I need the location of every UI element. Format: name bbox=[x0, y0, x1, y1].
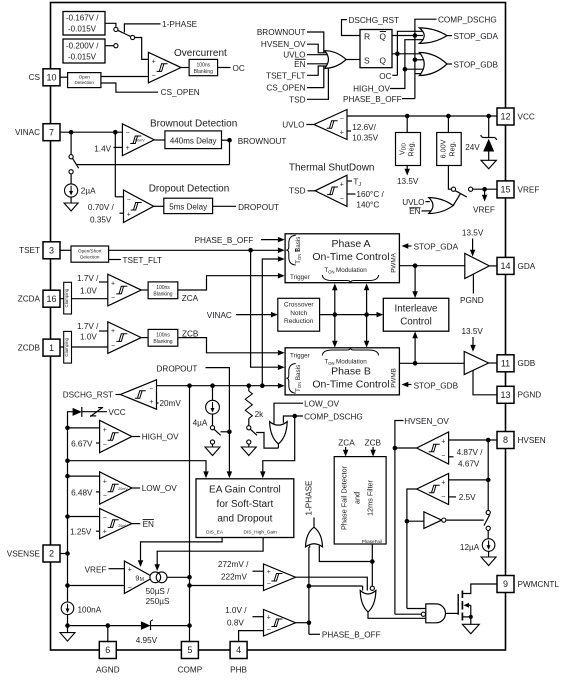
svg-text:−: − bbox=[103, 493, 107, 500]
svg-text:TSD: TSD bbox=[289, 95, 305, 104]
svg-text:VINAC: VINAC bbox=[207, 311, 232, 320]
svg-text:1-PHASE: 1-PHASE bbox=[305, 480, 314, 516]
svg-text:HVSEN: HVSEN bbox=[518, 436, 546, 445]
svg-text:DROPOUT: DROPOUT bbox=[238, 203, 279, 212]
svg-text:OC: OC bbox=[379, 72, 391, 81]
svg-text:Q: Q bbox=[379, 31, 386, 41]
svg-text:Trigger: Trigger bbox=[290, 352, 310, 359]
svg-text:TSD: TSD bbox=[289, 187, 305, 196]
svg-text:ZCDB: ZCDB bbox=[18, 344, 41, 353]
svg-text:13.5V: 13.5V bbox=[397, 177, 419, 186]
svg-text:Control: Control bbox=[400, 317, 432, 328]
svg-text:1.25V: 1.25V bbox=[70, 528, 92, 537]
svg-text:Phase A: Phase A bbox=[331, 238, 370, 250]
svg-text:Clamping: Clamping bbox=[64, 337, 69, 356]
svg-text:−: − bbox=[149, 385, 153, 392]
svg-text:PHASE_B_OFF: PHASE_B_OFF bbox=[322, 631, 381, 640]
svg-text:Dropout Detection: Dropout Detection bbox=[149, 184, 230, 195]
svg-text:4.87V /: 4.87V / bbox=[457, 448, 484, 457]
svg-text:20mV: 20mV bbox=[118, 524, 128, 528]
svg-text:DIS_EA: DIS_EA bbox=[206, 530, 224, 536]
svg-text:STOP_GDB: STOP_GDB bbox=[414, 381, 459, 390]
svg-text:1.0V /: 1.0V / bbox=[225, 606, 247, 615]
svg-text:24V: 24V bbox=[465, 143, 480, 152]
svg-text:TJ: TJ bbox=[353, 177, 361, 188]
svg-text:100nA: 100nA bbox=[78, 606, 102, 615]
svg-text:PWMA: PWMA bbox=[391, 252, 398, 272]
svg-text:Blanking: Blanking bbox=[153, 339, 172, 345]
svg-text:Phase B: Phase B bbox=[331, 366, 371, 378]
svg-text:M: M bbox=[140, 577, 144, 583]
svg-text:LOW_OV: LOW_OV bbox=[142, 484, 178, 493]
svg-text:Reduction: Reduction bbox=[284, 318, 314, 325]
svg-text:COMP_DSCHG: COMP_DSCHG bbox=[438, 15, 497, 24]
svg-text:TSET_FLT: TSET_FLT bbox=[266, 71, 305, 80]
svg-text:AGND: AGND bbox=[96, 666, 120, 675]
svg-text:−: − bbox=[267, 581, 271, 588]
svg-text:CS: CS bbox=[29, 73, 41, 82]
svg-text:VREF: VREF bbox=[473, 206, 495, 215]
svg-text:3: 3 bbox=[49, 246, 54, 256]
svg-text:On-Time Control: On-Time Control bbox=[312, 378, 389, 390]
svg-text:Reg.: Reg. bbox=[407, 141, 416, 156]
svg-text:Brownout Detection: Brownout Detection bbox=[150, 119, 237, 130]
svg-text:Clamping: Clamping bbox=[64, 288, 69, 307]
svg-text:16: 16 bbox=[46, 294, 56, 304]
svg-text:-0.167V /: -0.167V / bbox=[66, 14, 99, 23]
svg-text:-0.200V /: -0.200V / bbox=[66, 42, 99, 51]
svg-text:−: − bbox=[441, 453, 445, 460]
svg-text:20mV: 20mV bbox=[118, 487, 128, 491]
svg-text:5: 5 bbox=[187, 645, 192, 655]
svg-text:VREF: VREF bbox=[85, 566, 107, 575]
svg-text:BROWNOUT: BROWNOUT bbox=[238, 137, 287, 146]
svg-text:+: + bbox=[340, 129, 344, 136]
svg-text:UVLO: UVLO bbox=[282, 121, 304, 130]
svg-text:+: + bbox=[127, 212, 131, 219]
svg-text:+: + bbox=[128, 567, 132, 574]
svg-text:DSCHG_RST: DSCHG_RST bbox=[349, 16, 400, 25]
svg-text:TSET_FLT: TSET_FLT bbox=[123, 256, 162, 265]
svg-text:Q: Q bbox=[379, 55, 386, 65]
svg-text:CS_OPEN: CS_OPEN bbox=[161, 88, 200, 97]
svg-text:13.5V: 13.5V bbox=[462, 327, 484, 336]
svg-text:1.0V: 1.0V bbox=[80, 287, 97, 296]
svg-text:9: 9 bbox=[135, 573, 139, 582]
svg-text:−: − bbox=[152, 72, 156, 79]
svg-text:On-Time Control: On-Time Control bbox=[312, 251, 389, 263]
svg-text:+: + bbox=[111, 328, 115, 335]
svg-text:−: − bbox=[441, 494, 445, 501]
svg-text:+: + bbox=[152, 58, 156, 65]
svg-text:Modulation: Modulation bbox=[336, 359, 367, 366]
svg-text:PHB: PHB bbox=[230, 666, 247, 675]
svg-text:100ns: 100ns bbox=[156, 332, 170, 338]
svg-text:+: + bbox=[149, 399, 153, 406]
svg-text:VSENSE: VSENSE bbox=[7, 549, 41, 558]
svg-text:HIGH_OV: HIGH_OV bbox=[353, 85, 390, 94]
svg-text:ZCB: ZCB bbox=[182, 329, 199, 338]
svg-text:250µS: 250µS bbox=[146, 597, 170, 606]
svg-text:4.67V: 4.67V bbox=[458, 460, 480, 469]
svg-text:4µA: 4µA bbox=[193, 419, 208, 428]
svg-text:272mV /: 272mV / bbox=[218, 560, 249, 569]
svg-text:14: 14 bbox=[500, 261, 510, 271]
svg-text:0.8V: 0.8V bbox=[227, 619, 244, 628]
svg-text:Crossover: Crossover bbox=[284, 302, 314, 309]
svg-text:VCC: VCC bbox=[108, 408, 125, 417]
svg-text:4: 4 bbox=[236, 645, 241, 655]
svg-text:PGND: PGND bbox=[518, 391, 542, 400]
svg-text:Reg.: Reg. bbox=[448, 141, 457, 156]
svg-text:9: 9 bbox=[503, 579, 508, 589]
svg-text:7: 7 bbox=[49, 127, 54, 137]
svg-text:STOP_GDA: STOP_GDA bbox=[414, 243, 459, 252]
svg-text:−: − bbox=[340, 196, 344, 203]
svg-text:−: − bbox=[111, 343, 115, 350]
svg-text:0.70V /: 0.70V / bbox=[88, 203, 115, 212]
svg-text:+: + bbox=[126, 145, 130, 152]
svg-text:EN: EN bbox=[294, 60, 305, 69]
svg-text:-0.015V: -0.015V bbox=[68, 25, 97, 34]
svg-text:-0.015V: -0.015V bbox=[68, 53, 97, 62]
svg-text:6.48V: 6.48V bbox=[71, 488, 93, 497]
svg-text:ZCDA: ZCDA bbox=[18, 295, 41, 304]
svg-text:140°C: 140°C bbox=[356, 200, 379, 209]
svg-text:8: 8 bbox=[503, 435, 508, 445]
svg-text:PHASE_B_OFF: PHASE_B_OFF bbox=[343, 95, 402, 104]
svg-text:1.0V: 1.0V bbox=[80, 332, 97, 341]
svg-text:LOW_OV: LOW_OV bbox=[304, 400, 340, 409]
svg-text:100ns: 100ns bbox=[156, 285, 170, 291]
svg-text:Detection: Detection bbox=[74, 80, 94, 85]
svg-text:Blanking: Blanking bbox=[194, 69, 213, 75]
svg-text:DROPOUT: DROPOUT bbox=[157, 365, 198, 374]
svg-text:−: − bbox=[128, 584, 132, 591]
svg-text:PhaseFail: PhaseFail bbox=[362, 539, 382, 544]
svg-text:0.35V: 0.35V bbox=[90, 216, 112, 225]
svg-text:EN: EN bbox=[143, 520, 154, 529]
svg-text:10.35V: 10.35V bbox=[352, 134, 378, 143]
svg-text:50mV: 50mV bbox=[135, 138, 145, 142]
svg-text:2.5V: 2.5V bbox=[459, 493, 476, 502]
svg-text:+: + bbox=[111, 281, 115, 288]
svg-text:Modulation: Modulation bbox=[336, 267, 367, 274]
svg-text:+: + bbox=[441, 438, 445, 445]
svg-text:20mV: 20mV bbox=[160, 399, 182, 408]
svg-text:HVSEN_OV: HVSEN_OV bbox=[404, 417, 449, 426]
svg-text:and Dropout: and Dropout bbox=[217, 514, 272, 525]
svg-text:VINAC: VINAC bbox=[15, 128, 40, 137]
svg-text:1-PHASE: 1-PHASE bbox=[162, 20, 198, 29]
svg-text:PWMB: PWMB bbox=[391, 368, 398, 388]
svg-text:−: − bbox=[340, 115, 344, 122]
svg-text:6.67V: 6.67V bbox=[71, 440, 93, 449]
svg-text:S: S bbox=[364, 55, 370, 65]
svg-text:+: + bbox=[441, 480, 445, 487]
svg-text:Notch: Notch bbox=[290, 310, 307, 317]
svg-text:100ns: 100ns bbox=[196, 62, 210, 68]
svg-text:BROWNOUT: BROWNOUT bbox=[257, 28, 306, 37]
svg-text:Blanking: Blanking bbox=[153, 292, 172, 298]
svg-text:EA Gain Control: EA Gain Control bbox=[209, 485, 281, 496]
svg-text:Open/Short: Open/Short bbox=[78, 249, 102, 254]
svg-text:−: − bbox=[127, 197, 131, 204]
svg-text:TSET: TSET bbox=[19, 246, 40, 255]
svg-text:HIGH_OV: HIGH_OV bbox=[142, 433, 179, 442]
svg-text:PWMCNTL: PWMCNTL bbox=[518, 580, 560, 589]
svg-text:2k: 2k bbox=[255, 410, 265, 419]
svg-text:for Soft-Start: for Soft-Start bbox=[217, 499, 274, 510]
svg-text:UVLO: UVLO bbox=[402, 198, 424, 207]
svg-text:4.95V: 4.95V bbox=[136, 636, 158, 645]
svg-text:12: 12 bbox=[500, 112, 510, 122]
svg-text:440ms Delay: 440ms Delay bbox=[170, 137, 217, 146]
svg-text:VREF: VREF bbox=[518, 185, 540, 194]
svg-text:15: 15 bbox=[500, 185, 510, 195]
svg-text:Thermal ShutDown: Thermal ShutDown bbox=[289, 163, 375, 174]
svg-text:5ms Delay: 5ms Delay bbox=[169, 203, 207, 212]
svg-text:GDB: GDB bbox=[518, 359, 536, 368]
svg-text:+: + bbox=[103, 478, 107, 485]
svg-text:−: − bbox=[126, 130, 130, 137]
svg-text:ZCB: ZCB bbox=[365, 438, 382, 447]
svg-text:+: + bbox=[267, 614, 271, 621]
svg-text:PGND: PGND bbox=[460, 296, 484, 305]
svg-text:222mV: 222mV bbox=[221, 573, 247, 582]
svg-text:OC: OC bbox=[233, 64, 245, 73]
svg-text:Trigger: Trigger bbox=[290, 274, 310, 281]
svg-text:Detection: Detection bbox=[80, 255, 100, 260]
svg-text:STOP_GDB: STOP_GDB bbox=[454, 61, 499, 70]
svg-text:1.4V: 1.4V bbox=[94, 144, 111, 153]
svg-text:+: + bbox=[103, 528, 107, 535]
svg-text:ZCA: ZCA bbox=[338, 438, 355, 447]
svg-text:2µA: 2µA bbox=[81, 186, 96, 195]
svg-text:+: + bbox=[103, 427, 107, 434]
svg-text:DIS_High_Gain: DIS_High_Gain bbox=[244, 530, 278, 536]
svg-text:−: − bbox=[103, 442, 107, 449]
svg-text:−: − bbox=[111, 295, 115, 302]
svg-text:12µA: 12µA bbox=[460, 543, 480, 552]
svg-text:HVSEN_OV: HVSEN_OV bbox=[261, 40, 306, 49]
svg-text:13: 13 bbox=[500, 390, 510, 400]
svg-text:Interleave: Interleave bbox=[394, 304, 438, 315]
svg-text:2: 2 bbox=[49, 549, 54, 559]
svg-text:1.7V /: 1.7V / bbox=[77, 274, 99, 283]
svg-text:160°C /: 160°C / bbox=[356, 190, 384, 199]
svg-text:VCC: VCC bbox=[518, 112, 535, 121]
svg-text:−: − bbox=[267, 627, 271, 634]
svg-text:COMP_DSCHG: COMP_DSCHG bbox=[304, 412, 363, 421]
svg-text:11: 11 bbox=[501, 359, 510, 369]
svg-text:12ms Filter: 12ms Filter bbox=[366, 479, 375, 516]
svg-text:DSCHG_RST: DSCHG_RST bbox=[63, 391, 114, 400]
svg-text:STOP_GDA: STOP_GDA bbox=[454, 32, 499, 41]
svg-text:PHASE_B_OFF: PHASE_B_OFF bbox=[195, 236, 254, 245]
svg-text:10: 10 bbox=[46, 73, 56, 83]
svg-text:R: R bbox=[364, 31, 370, 41]
svg-text:EN: EN bbox=[409, 207, 420, 216]
svg-text:1.7V /: 1.7V / bbox=[77, 322, 99, 331]
svg-text:COMP: COMP bbox=[178, 666, 203, 675]
svg-text:CS_OPEN: CS_OPEN bbox=[266, 84, 305, 93]
svg-text:−: − bbox=[103, 514, 107, 521]
svg-text:Overcurrent: Overcurrent bbox=[174, 48, 227, 59]
svg-text:Phase Fail Detector: Phase Fail Detector bbox=[340, 465, 349, 530]
svg-text:Open: Open bbox=[79, 74, 91, 79]
svg-text:UVLO: UVLO bbox=[283, 51, 305, 60]
svg-text:13.5V: 13.5V bbox=[462, 229, 484, 238]
svg-text:ZCA: ZCA bbox=[182, 294, 199, 303]
svg-text:1: 1 bbox=[49, 343, 54, 353]
svg-text:+: + bbox=[340, 181, 344, 188]
svg-text:6: 6 bbox=[105, 645, 110, 655]
svg-text:6.00V: 6.00V bbox=[439, 139, 448, 158]
svg-text:and: and bbox=[353, 492, 362, 504]
svg-text:GDA: GDA bbox=[518, 262, 536, 271]
svg-text:12.6V/: 12.6V/ bbox=[352, 123, 376, 132]
svg-text:50µS /: 50µS / bbox=[146, 587, 171, 596]
svg-text:+: + bbox=[267, 569, 271, 576]
